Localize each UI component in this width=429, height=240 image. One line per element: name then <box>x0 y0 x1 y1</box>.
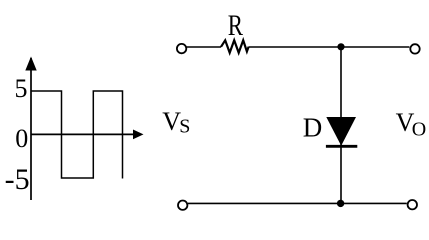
junction top node <box>337 43 344 50</box>
diode D cathode bar <box>326 145 357 148</box>
square wave trace <box>31 91 123 179</box>
svg-text:S: S <box>179 116 190 138</box>
terminal output top (open circle) <box>410 44 419 53</box>
terminal input bottom (open circle) <box>178 201 187 210</box>
svg-text:-5: -5 <box>5 163 30 196</box>
svg-text:O: O <box>412 119 426 141</box>
terminal output bottom (open circle) <box>408 200 417 209</box>
svg-text:5: 5 <box>15 74 28 103</box>
waveform y-axis arrowhead <box>25 57 36 71</box>
svg-text:D: D <box>303 112 323 142</box>
diode D triangle (anode) <box>326 117 356 146</box>
waveform x-axis <box>31 133 135 135</box>
waveform y-axis <box>30 58 32 200</box>
terminal input top (open circle) <box>177 44 186 53</box>
svg-text:0: 0 <box>15 124 28 153</box>
junction bottom node <box>337 200 344 207</box>
wire resistor to top-right terminal <box>249 46 410 48</box>
waveform x-axis arrowhead <box>133 130 144 140</box>
wire vertical through diode branch <box>340 47 342 203</box>
wire bottom <box>188 202 407 204</box>
resistor R1 zigzag <box>221 40 249 53</box>
svg-text:R: R <box>228 8 243 42</box>
wire top-left to resistor <box>187 46 221 48</box>
